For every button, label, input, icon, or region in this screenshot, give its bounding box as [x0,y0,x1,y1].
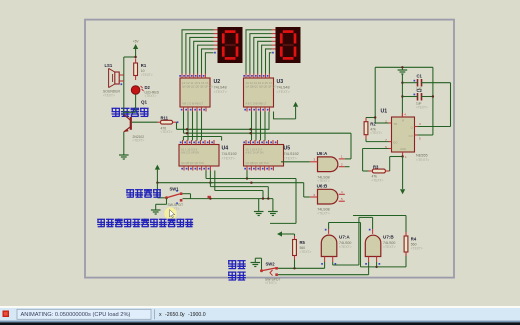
svg-text:-2650.0: -2650.0 [165,312,183,318]
wire R2 bottom to DC [365,139,367,142]
svg-text:74LS192: 74LS192 [222,152,237,156]
wire L6 ground bus [183,198,273,200]
svg-text:U6:A: U6:A [317,151,328,156]
svg-text:R3: R3 [373,164,379,169]
junction SW1 arrow [156,182,158,184]
svg-text:NE555: NE555 [416,154,428,158]
power arrow SW1 [155,165,160,170]
junction bus2 [186,132,188,134]
U1 top pin [401,113,403,117]
wire U6:A input [281,161,310,163]
wire R5 bottom [294,260,296,269]
wire R3 right up [389,157,391,172]
svg-text:<TEXT>: <TEXT> [277,90,290,94]
svg-text:R5: R5 [300,240,306,245]
svg-text:C1: C1 [417,73,423,78]
statusbar stop icon [3,311,10,318]
resistor R2 [364,122,368,135]
power arrow left R5 [277,231,282,236]
R1 pins [135,59,137,64]
R11 pins [158,121,161,123]
svg-text:+5V: +5V [133,40,140,44]
wire arrow to SW1 pole [156,183,158,198]
svg-text:QA QB QC QD QE QF QG: QA QB QC QD QE QF QG [246,85,277,89]
resistor R3 [372,169,385,173]
U7:A output pin [328,229,330,234]
wire U1 gnd down [402,157,404,190]
U3 top pins [245,74,247,79]
wire C1 right drop [450,83,452,127]
statusbar dark base [0,322,520,325]
svg-text:<TEXT>: <TEXT> [300,250,312,254]
svg-text:<TEXT>: <TEXT> [161,130,173,134]
gate U7:A 74LS00 [321,235,337,256]
sheet border frame [85,20,454,278]
junction U1 gnd [401,155,403,157]
U1 left pins [389,122,392,124]
wire SW1 top contact [182,193,190,195]
svg-text:SW1: SW1 [170,187,180,192]
U6:B left pin [310,196,318,198]
IC U3 74LS48 [244,78,274,107]
cursor highlight [164,207,176,219]
wire bundle U2 to DS1 [182,30,214,74]
junction R5 bottom [293,267,295,269]
power +5V arrow near U3 [293,102,298,107]
wires U2 to U4 [187,112,189,141]
svg-text:74LS192: 74LS192 [284,152,299,156]
U5 bottom pins [246,166,248,171]
svg-text:<TEXT>: <TEXT> [416,105,428,109]
note fu-wei-zhi-hou line [97,219,105,227]
svg-text:U7:B: U7:B [383,234,394,239]
U6:A left pin [310,161,318,163]
svg-text:<TEXT>: <TEXT> [284,156,297,160]
U6:B right pins [339,193,345,195]
U7:A input pins [324,257,326,263]
7-segment display DS1 [218,27,243,63]
wire ground drop 1 [258,199,260,211]
wire bus2 [183,112,185,134]
IC U4 74LS192 [179,145,219,167]
wire ground drop 2 [272,199,274,211]
power arrow down U1 [400,189,405,194]
wire TH [363,148,389,150]
svg-text:<TEXT>: <TEXT> [383,245,396,249]
ground below U5 right [268,211,278,213]
sounder LS1 [115,72,119,84]
U3 bottom pins [246,107,248,112]
U6:A right pins [339,158,345,160]
svg-text:QA QB QC QD TCU: QA QB QC QD TCU [181,161,204,165]
statusbar animating field [17,309,151,319]
resistor R4 [404,236,408,252]
capacitor C2 [417,93,419,101]
svg-text:y: y [182,312,185,318]
wire R11 drop [176,122,178,129]
svg-text:74LS48: 74LS48 [214,86,227,90]
svg-text:<TEXT>: <TEXT> [416,158,429,162]
U2 bottom pins [183,107,185,112]
wire C2 right drop [432,67,434,135]
resistor R5 [293,240,297,256]
LED D2 [131,86,140,95]
wire SW2 top net [278,267,325,269]
svg-text:13 12 11 10 9 15 14: 13 12 11 10 9 15 14 [182,81,209,85]
U4 top pins [182,140,184,145]
wire R4 top net [353,215,406,217]
svg-text:<TEXT>: <TEXT> [145,94,157,98]
ground below U5 left [254,211,264,213]
junction +5V [134,56,136,58]
statusbar separator [154,309,156,319]
R4 pins [405,232,407,236]
wire above U4 [182,137,184,141]
wire L3 [209,171,211,187]
wire U6:A upper stub [345,158,351,160]
wire L1 [205,171,207,179]
svg-text:R1: R1 [141,63,147,68]
wire A-out cross [328,223,330,230]
svg-text:QA QB QC QD TCU: QA QB QC QD TCU [246,161,269,165]
svg-text:A B C D BI RBI LT: A B C D BI RBI LT [182,102,203,106]
ground Q1 [119,154,129,156]
wires U3 to U5 [251,112,253,141]
wire Q1 base [132,121,158,123]
IC U1 NE555 [392,117,415,152]
wire L2 SW1 bus [157,182,303,184]
note fu-wei-an-jian [126,189,134,197]
svg-text:<TEXT>: <TEXT> [317,179,330,183]
note qi-dong [228,272,236,280]
wire SW1 ground [156,203,167,205]
gate U6:B 74LS08 [318,189,338,204]
wire bus1 [177,112,270,130]
svg-text:74LS48: 74LS48 [277,86,290,90]
junction C column [401,82,403,84]
wire U6:A lower stub [345,166,350,168]
svg-text:<TEXT>: <TEXT> [265,281,277,285]
wire SW2 pole [255,257,261,259]
svg-text:U4: U4 [222,146,229,152]
svg-text:U5: U5 [284,146,291,152]
svg-text:GND: GND [400,147,406,151]
svg-text:U1: U1 [381,109,388,115]
U2 top pins [181,74,183,79]
svg-text:<TEXT>: <TEXT> [339,245,352,249]
svg-text:C2: C2 [417,88,423,93]
svg-text:<TEXT>: <TEXT> [222,156,235,160]
svg-text:A B C D UP DN: A B C D UP DN [246,151,264,155]
wire R4 net [377,266,406,268]
svg-text:R2: R2 [370,122,376,127]
switch SW1 [165,196,168,199]
statusbar highlight [0,306,520,308]
wire top rail [375,66,433,68]
wire TR column [374,67,376,123]
svg-text:<TEXT>: <TEXT> [317,211,330,215]
ground top rail [401,67,403,70]
svg-text:R4: R4 [411,237,417,242]
U4 bottom pins [183,166,185,171]
wire R3 left [363,170,369,172]
note sheng-guang-jing-shi [112,108,121,117]
power +5V arrow top [133,44,138,49]
svg-text:U2: U2 [214,79,221,85]
U1 right pins [415,126,418,128]
switch SW2 [260,269,263,272]
wire U6:B input [304,196,310,198]
svg-text:R11: R11 [161,115,169,120]
SW1 moving contact mark [208,196,211,198]
svg-text:LS1: LS1 [105,63,113,68]
statusbar steel line [0,321,520,323]
wire LS1 branch [123,57,125,116]
svg-text:<TEXT>: <TEXT> [411,247,423,251]
wire B-out cross [372,217,374,229]
R3 pins [369,170,373,172]
DS2 pins [272,29,276,31]
junction R2 top [374,116,376,118]
wire +5V tee [124,56,136,58]
wire U5 pin drop [246,171,248,179]
U7:B output pin [372,229,374,234]
DS1 pins [214,29,218,31]
svg-text:74LS00: 74LS00 [383,241,395,245]
wire C left column [401,75,403,118]
statusbar body [0,308,520,321]
transistor Q1 [130,117,132,130]
R5 pins [294,236,296,240]
svg-text:D2: D2 [145,85,151,90]
svg-text:13 12 11 10 9 15 14: 13 12 11 10 9 15 14 [246,81,273,85]
svg-text:QA QB QC QD QE QF QG: QA QB QC QD QE QF QG [182,85,213,89]
junction L2 [209,182,211,184]
resistor R1 [134,63,138,76]
svg-text:U6:B: U6:B [317,184,328,189]
svg-text:-1900.0: -1900.0 [188,312,206,318]
svg-text:SW2: SW2 [266,262,276,267]
resistor R11 [161,120,173,124]
junction bus1 [186,128,188,130]
gate U6:A 74LS08 [318,157,338,172]
junction L6 [209,197,211,199]
svg-text:<TEXT>: <TEXT> [370,131,382,135]
U5 top pins [245,140,247,145]
junction C2 right [432,95,434,97]
U1 bottom pin [402,152,404,157]
svg-text:<TEXT>: <TEXT> [141,73,153,77]
wire Q1 emitter [123,132,125,155]
capacitor C1 [417,79,419,87]
gate U7:B 74LS00 [365,235,381,256]
svg-text:A B C D UP DN: A B C D UP DN [181,151,199,155]
svg-text:74LS00: 74LS00 [339,241,351,245]
wire bundle U3 to DS2 [246,30,272,74]
IC U5 74LS192 [244,145,284,167]
wire SW2 bottom net [278,274,369,276]
svg-text:<TEXT>: <TEXT> [372,178,384,182]
wire R2 top [366,117,375,119]
svg-text:Q1: Q1 [141,99,148,104]
IC U2 74LS48 [180,78,210,107]
note zan-ting [228,260,236,268]
svg-text:U3: U3 [277,79,284,85]
wire +5V to U3 [274,112,296,119]
svg-text:<TEXT>: <TEXT> [103,94,115,98]
svg-text:<TEXT>: <TEXT> [214,90,227,94]
svg-text:x: x [159,312,162,318]
ground SW1 [151,209,161,211]
7-segment display DS2 [276,27,301,63]
svg-text:<TEXT>: <TEXT> [133,139,145,143]
wire L4 [214,171,216,191]
U7:B input pins [368,257,370,263]
R2 pins [365,117,367,121]
svg-text:U7:A: U7:A [339,234,350,239]
ground SW2 [251,262,261,264]
svg-text:CV: CV [409,134,413,138]
junction L1 [246,177,248,179]
svg-text:A B C D BI RBI LT: A B C D BI RBI LT [246,102,267,106]
junction B right input [375,266,377,268]
svg-text:ANIMATING: 0.050000000s (CPU l: ANIMATING: 0.050000000s (CPU load 2%) [21,312,131,318]
wire D2 down [135,94,137,112]
